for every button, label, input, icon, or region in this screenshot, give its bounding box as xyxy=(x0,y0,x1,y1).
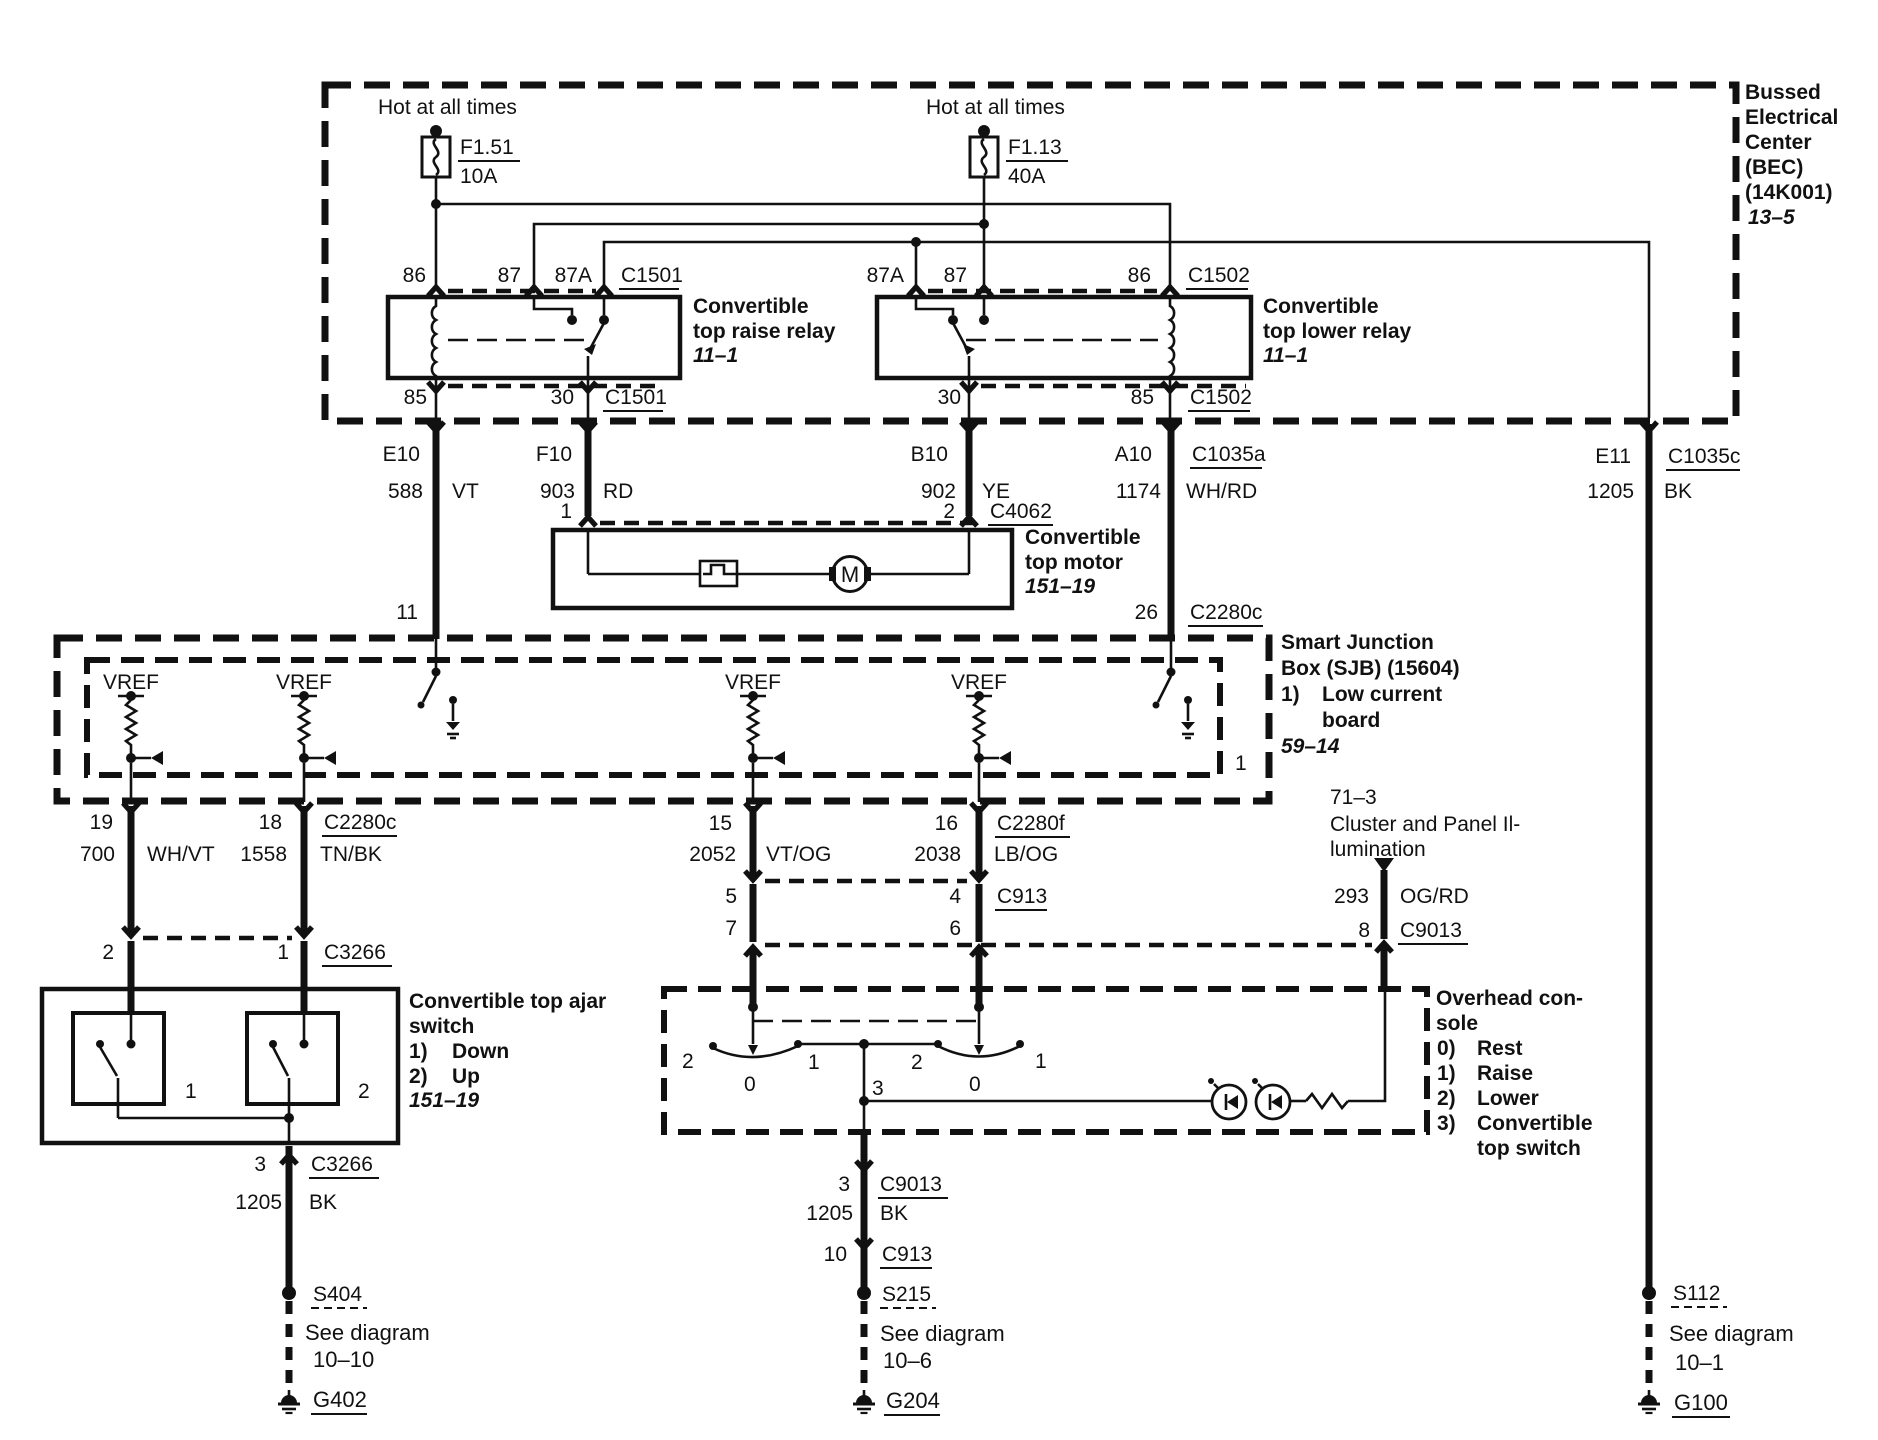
svg-text:lumination: lumination xyxy=(1330,838,1426,861)
svg-text:86: 86 xyxy=(403,264,426,287)
svg-text:1): 1) xyxy=(1281,683,1300,706)
svg-text:LB/OG: LB/OG xyxy=(994,843,1058,866)
svg-text:Convertible top ajar: Convertible top ajar xyxy=(409,990,606,1013)
svg-text:F1.13: F1.13 xyxy=(1008,136,1062,159)
svg-text:Down: Down xyxy=(452,1040,509,1063)
svg-text:87: 87 xyxy=(944,264,967,287)
svg-text:4: 4 xyxy=(949,885,961,908)
svg-text:E10: E10 xyxy=(383,443,420,466)
svg-text:C913: C913 xyxy=(882,1243,932,1266)
svg-text:1: 1 xyxy=(560,500,572,523)
svg-text:VREF: VREF xyxy=(276,671,332,694)
svg-text:59–14: 59–14 xyxy=(1281,735,1340,758)
svg-text:1205: 1205 xyxy=(806,1202,853,1225)
svg-text:(BEC): (BEC) xyxy=(1745,156,1803,179)
svg-text:VREF: VREF xyxy=(103,671,159,694)
svg-text:G100: G100 xyxy=(1674,1390,1728,1415)
svg-text:G402: G402 xyxy=(313,1387,367,1412)
svg-text:S404: S404 xyxy=(313,1283,362,1306)
svg-text:Convertible: Convertible xyxy=(1263,295,1379,318)
svg-text:C9013: C9013 xyxy=(880,1173,942,1196)
svg-text:C1501: C1501 xyxy=(621,264,683,287)
svg-text:WH/VT: WH/VT xyxy=(147,843,215,866)
svg-text:C3266: C3266 xyxy=(324,941,386,964)
svg-text:Convertible: Convertible xyxy=(1025,526,1141,549)
svg-text:switch: switch xyxy=(409,1015,474,1038)
svg-text:85: 85 xyxy=(404,386,427,409)
svg-text:(14K001): (14K001) xyxy=(1745,181,1833,204)
svg-text:WH/RD: WH/RD xyxy=(1186,480,1257,503)
svg-text:10–10: 10–10 xyxy=(313,1347,374,1372)
svg-text:151–19: 151–19 xyxy=(409,1089,479,1112)
svg-text:15: 15 xyxy=(709,812,732,835)
svg-text:87: 87 xyxy=(498,264,521,287)
svg-text:B10: B10 xyxy=(911,443,948,466)
svg-text:RD: RD xyxy=(603,480,633,503)
svg-text:30: 30 xyxy=(551,386,574,409)
svg-text:10A: 10A xyxy=(460,165,497,188)
svg-text:Hot at all times: Hot at all times xyxy=(378,96,517,119)
svg-text:C2280c: C2280c xyxy=(1190,601,1262,624)
svg-text:1: 1 xyxy=(1035,1050,1047,1073)
svg-text:sole: sole xyxy=(1436,1012,1478,1035)
svg-text:700: 700 xyxy=(80,843,115,866)
svg-text:See diagram: See diagram xyxy=(880,1321,1005,1346)
svg-text:M: M xyxy=(841,562,859,587)
svg-text:30: 30 xyxy=(938,386,961,409)
svg-text:VT: VT xyxy=(452,480,479,503)
svg-text:C1501: C1501 xyxy=(605,386,667,409)
svg-text:87A: 87A xyxy=(555,264,592,287)
svg-text:10: 10 xyxy=(824,1243,847,1266)
svg-text:10–1: 10–1 xyxy=(1675,1350,1724,1375)
svg-text:C1502: C1502 xyxy=(1190,386,1252,409)
svg-text:18: 18 xyxy=(259,811,282,834)
svg-text:C1035a: C1035a xyxy=(1192,443,1266,466)
svg-text:1: 1 xyxy=(185,1080,197,1103)
svg-text:1205: 1205 xyxy=(235,1191,282,1214)
svg-text:8: 8 xyxy=(1358,919,1370,942)
svg-text:1: 1 xyxy=(1235,752,1247,775)
svg-text:588: 588 xyxy=(388,480,423,503)
svg-text:1): 1) xyxy=(1437,1062,1456,1085)
svg-text:Convertible: Convertible xyxy=(1477,1112,1593,1135)
svg-text:40A: 40A xyxy=(1008,165,1045,188)
svg-text:2: 2 xyxy=(358,1080,370,1103)
svg-text:S112: S112 xyxy=(1673,1282,1721,1305)
svg-text:85: 85 xyxy=(1131,386,1154,409)
svg-text:BK: BK xyxy=(1664,480,1692,503)
svg-text:top raise relay: top raise relay xyxy=(693,320,836,343)
svg-text:16: 16 xyxy=(935,812,958,835)
svg-text:Low current: Low current xyxy=(1322,683,1442,706)
svg-text:Lower: Lower xyxy=(1477,1087,1539,1110)
svg-text:13–5: 13–5 xyxy=(1748,206,1795,229)
svg-text:top motor: top motor xyxy=(1025,551,1123,574)
svg-text:3: 3 xyxy=(838,1173,850,1196)
svg-text:3): 3) xyxy=(1437,1112,1456,1135)
svg-text:1558: 1558 xyxy=(240,843,287,866)
svg-text:2: 2 xyxy=(911,1051,923,1074)
svg-text:G204: G204 xyxy=(886,1388,940,1413)
svg-text:1): 1) xyxy=(409,1040,428,1063)
svg-text:board: board xyxy=(1322,709,1380,732)
svg-text:VREF: VREF xyxy=(725,671,781,694)
svg-text:Raise: Raise xyxy=(1477,1062,1533,1085)
svg-text:1: 1 xyxy=(808,1051,820,1074)
svg-text:Convertible: Convertible xyxy=(693,295,809,318)
svg-text:2): 2) xyxy=(409,1065,428,1088)
svg-text:Hot at all times: Hot at all times xyxy=(926,96,1065,119)
svg-text:C1502: C1502 xyxy=(1188,264,1250,287)
svg-text:71–3: 71–3 xyxy=(1330,786,1377,809)
svg-text:F10: F10 xyxy=(536,443,572,466)
svg-text:293: 293 xyxy=(1334,885,1369,908)
svg-text:C3266: C3266 xyxy=(311,1153,373,1176)
svg-text:A10: A10 xyxy=(1115,443,1152,466)
svg-text:E11: E11 xyxy=(1595,445,1631,468)
svg-text:2038: 2038 xyxy=(914,843,961,866)
svg-text:BK: BK xyxy=(880,1202,908,1225)
svg-text:C4062: C4062 xyxy=(990,500,1052,523)
svg-text:86: 86 xyxy=(1128,264,1151,287)
svg-text:C2280f: C2280f xyxy=(997,812,1065,835)
svg-text:1174: 1174 xyxy=(1116,480,1161,503)
svg-text:top lower relay: top lower relay xyxy=(1263,320,1412,343)
svg-text:10–6: 10–6 xyxy=(883,1348,932,1373)
svg-text:3: 3 xyxy=(872,1077,884,1100)
svg-text:2052: 2052 xyxy=(689,843,736,866)
svg-text:OG/RD: OG/RD xyxy=(1400,885,1469,908)
svg-text:2): 2) xyxy=(1437,1087,1456,1110)
svg-text:C913: C913 xyxy=(997,885,1047,908)
svg-text:1: 1 xyxy=(277,941,289,964)
svg-text:6: 6 xyxy=(949,917,961,940)
svg-text:VT/OG: VT/OG xyxy=(766,843,831,866)
svg-text:0: 0 xyxy=(969,1073,981,1096)
svg-text:top switch: top switch xyxy=(1477,1137,1581,1160)
svg-text:VREF: VREF xyxy=(951,671,1007,694)
svg-text:2: 2 xyxy=(943,500,955,523)
svg-text:Cluster and Panel Il-: Cluster and Panel Il- xyxy=(1330,813,1520,836)
svg-text:TN/BK: TN/BK xyxy=(320,843,382,866)
svg-text:5: 5 xyxy=(725,885,737,908)
svg-text:0: 0 xyxy=(744,1073,756,1096)
svg-text:C1035c: C1035c xyxy=(1668,445,1740,468)
svg-text:11–1: 11–1 xyxy=(693,344,738,367)
svg-text:Overhead con-: Overhead con- xyxy=(1436,987,1583,1010)
svg-text:Up: Up xyxy=(452,1065,480,1088)
svg-text:Bussed: Bussed xyxy=(1745,81,1821,104)
svg-text:See diagram: See diagram xyxy=(1669,1321,1794,1346)
svg-text:Electrical: Electrical xyxy=(1745,106,1838,129)
svg-text:Center: Center xyxy=(1745,131,1812,154)
svg-text:C2280c: C2280c xyxy=(324,811,396,834)
svg-text:F1.51: F1.51 xyxy=(460,136,514,159)
svg-text:2: 2 xyxy=(102,941,114,964)
svg-text:S215: S215 xyxy=(882,1283,931,1306)
svg-text:26: 26 xyxy=(1135,601,1158,624)
svg-text:C9013: C9013 xyxy=(1400,919,1462,942)
svg-text:19: 19 xyxy=(90,811,113,834)
svg-text:151–19: 151–19 xyxy=(1025,575,1095,598)
svg-text:Box (SJB) (15604): Box (SJB) (15604) xyxy=(1281,657,1460,680)
svg-text:BK: BK xyxy=(309,1191,337,1214)
svg-text:See diagram: See diagram xyxy=(305,1320,430,1345)
svg-text:Smart Junction: Smart Junction xyxy=(1281,631,1434,654)
svg-text:2: 2 xyxy=(682,1050,694,1073)
svg-text:0): 0) xyxy=(1437,1037,1456,1060)
svg-text:87A: 87A xyxy=(867,264,904,287)
svg-text:3: 3 xyxy=(254,1153,266,1176)
svg-text:7: 7 xyxy=(725,917,737,940)
svg-text:11: 11 xyxy=(396,601,418,624)
svg-text:11–1: 11–1 xyxy=(1263,344,1308,367)
svg-text:Rest: Rest xyxy=(1477,1037,1523,1060)
svg-text:1205: 1205 xyxy=(1587,480,1634,503)
